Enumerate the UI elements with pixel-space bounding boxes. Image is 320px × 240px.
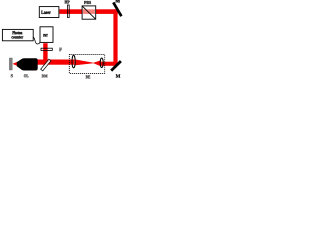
- label F: [59, 48, 62, 51]
- beam: right vertical: [113, 9, 117, 66]
- beam: laser to top mirror: [59, 9, 118, 14]
- label counter: [12, 36, 24, 39]
- sample S: [9, 58, 12, 70]
- label PBS: [84, 1, 91, 4]
- beam: small lens to bottom mirror: [100, 62, 118, 66]
- beam seen through PBS: [83, 9, 95, 14]
- label M bottom: [116, 74, 120, 77]
- label M top: [115, 0, 119, 2]
- mirror M top right: [113, 2, 121, 16]
- mirror M bottom right: [111, 61, 121, 71]
- label S: [11, 74, 13, 77]
- label PMT: [43, 34, 47, 37]
- label Photon: [12, 31, 22, 34]
- objective lens OL: [17, 58, 23, 70]
- PBS diagonal: [82, 6, 96, 19]
- label DM: [42, 75, 48, 78]
- half-wave plate HP: [67, 5, 69, 18]
- beam: converging cone in beam expander: [74, 59, 93, 65]
- beam: bottom horizontal, objective to big lens: [38, 60, 75, 65]
- label BE: [86, 75, 91, 78]
- wire (photon counter to PMT): [33, 37, 40, 44]
- label Laser: [41, 11, 51, 14]
- lens L2 (small): [100, 58, 103, 68]
- lens L1 (big): [72, 55, 75, 68]
- PMT box: [40, 27, 53, 43]
- label HP: [65, 1, 70, 4]
- beam: vertical to PMT: [43, 43, 47, 64]
- photon counter box: [2, 29, 33, 40]
- label OL: [24, 74, 29, 77]
- PBS cube: [82, 6, 96, 19]
- dichroic mirror DM: [41, 59, 51, 71]
- beam expander dashed box BE: [69, 55, 104, 74]
- beam: diverging cone in beam expander: [94, 60, 102, 66]
- filter F: [41, 48, 52, 50]
- beam: focus cone at sample: [12, 61, 18, 66]
- laser box: [39, 7, 59, 18]
